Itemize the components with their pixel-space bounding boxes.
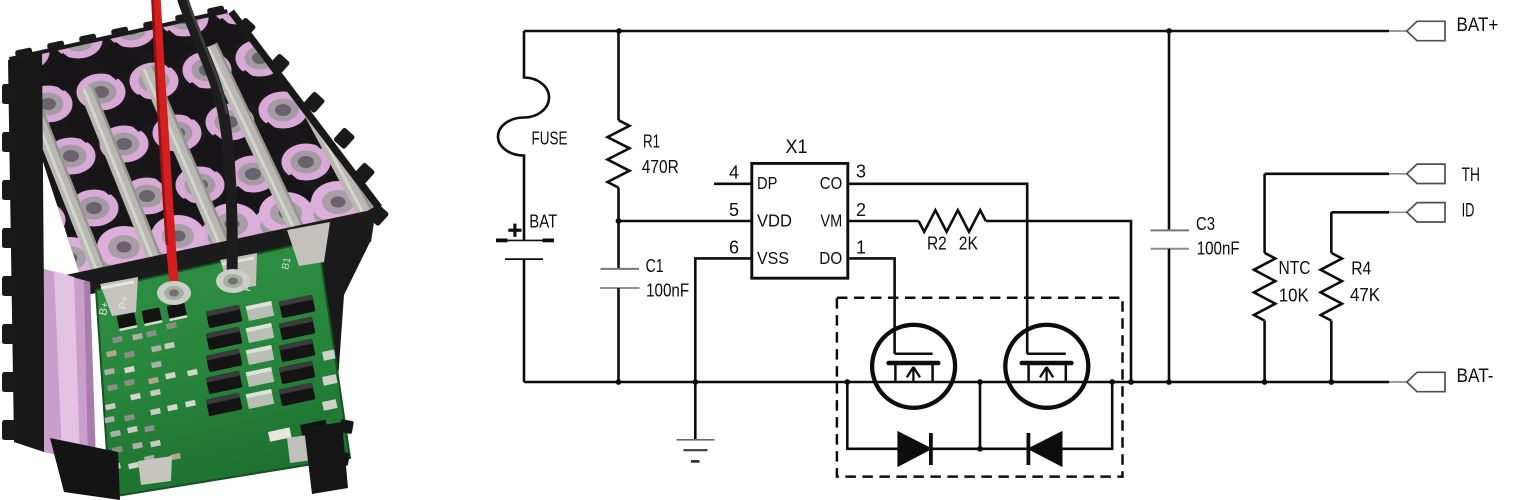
junction node (1328, 379, 1334, 385)
wire bottom BAT- rail (524, 381, 1389, 384)
resistor R2 2K (919, 210, 986, 232)
capacitor C3 100nF (1168, 31, 1171, 231)
transistor Q1 gate (895, 353, 933, 356)
resistor R1 470R (617, 31, 620, 120)
svg-text:NTC: NTC (1279, 258, 1311, 278)
cell tops (0, 0, 27, 19)
svg-text:R1: R1 (643, 130, 660, 151)
junction node (844, 379, 850, 385)
terminal BAT- (1407, 372, 1445, 391)
wire battery to bottom rail (523, 259, 526, 382)
black wire (183, 0, 232, 282)
left holder strip (8, 52, 44, 452)
svg-text:DP: DP (757, 173, 777, 193)
transistor Q2 drain leg (1065, 363, 1068, 382)
capacitor C1 100nF (617, 221, 620, 269)
FET components (206, 305, 243, 329)
svg-text:5: 5 (729, 200, 739, 220)
resistor R4 47K (1330, 212, 1333, 253)
transistor Q2 channel bar (1022, 361, 1072, 366)
wire top BAT+ rail (524, 30, 1389, 33)
junction node (1166, 379, 1172, 385)
terminal BAT+ (1407, 21, 1445, 40)
svg-text:C3: C3 (1196, 214, 1215, 234)
wire VM to rail (986, 221, 1131, 382)
svg-text:VDD: VDD (757, 210, 792, 230)
wire pin2 VM (848, 220, 919, 223)
transistor Q2 gate (1027, 353, 1066, 356)
svg-text:X1: X1 (786, 136, 808, 158)
left side cell (34, 266, 96, 464)
wire left vertical + fuse F1 (498, 31, 549, 240)
solder pads (157, 281, 191, 305)
junction node (616, 28, 622, 34)
svg-text:R2: R2 (927, 234, 947, 254)
wire pin3 CO to Q2 gate (848, 184, 1027, 354)
IC X1 box (752, 163, 848, 278)
wire pin6 VSS to ground (695, 258, 752, 382)
svg-text:3: 3 (856, 162, 866, 182)
right edge border (228, 14, 376, 210)
front row cells (43, 237, 97, 279)
svg-text:10K: 10K (1279, 286, 1309, 306)
red wire (156, 0, 174, 292)
svg-text:DO: DO (819, 248, 842, 268)
transistor Q1 channel bar (889, 361, 939, 366)
dashed MOSFET module box (837, 298, 1123, 477)
svg-text:TH: TH (1462, 165, 1480, 186)
terminal ID (1407, 203, 1445, 222)
svg-text:BAT-: BAT- (1457, 366, 1494, 387)
wire TH (1265, 173, 1389, 176)
holder tabs right edge (234, 17, 257, 40)
junction node (1262, 379, 1268, 385)
svg-text:BAT+: BAT+ (1457, 15, 1499, 36)
transistor Q1 drain leg (931, 363, 934, 382)
transistor Q1 body circle (872, 325, 955, 408)
bottom feet (50, 438, 120, 500)
junction node (616, 218, 622, 224)
transistor Q1 body arrow (912, 369, 914, 383)
svg-text:CO: CO (820, 173, 842, 193)
wire pin4 DP stub (714, 183, 752, 186)
SMD ICs (117, 312, 138, 331)
junction node (1166, 28, 1172, 34)
transistor Q2 source leg (1027, 363, 1030, 382)
junction node (1109, 379, 1115, 385)
ground symbol (694, 382, 697, 440)
svg-text:BAT: BAT (529, 212, 557, 232)
svg-text:6: 6 (729, 238, 739, 258)
wire diode centre riser (979, 382, 982, 449)
svg-text:100nF: 100nF (646, 281, 689, 301)
nickel wrap tabs over PCB edge (100, 277, 138, 316)
BMS PCB (96, 240, 350, 497)
svg-text:47K: 47K (1350, 285, 1380, 305)
junction node (692, 379, 698, 385)
junction node (616, 379, 622, 385)
svg-text:2K: 2K (959, 234, 978, 254)
bottom nickel tabs (138, 456, 172, 485)
diode D2 body diode (980, 447, 1028, 450)
front edge band (42, 209, 376, 304)
nickel strips top (26, 101, 111, 286)
svg-text:C1: C1 (646, 256, 664, 276)
junction node (977, 379, 983, 385)
diode D1 body diode (847, 382, 898, 449)
svg-text:1: 1 (856, 238, 866, 258)
top edge border (10, 14, 228, 62)
svg-text:4: 4 (729, 162, 739, 182)
junction node (1128, 379, 1134, 385)
right corner holder (312, 206, 376, 462)
svg-text:FUSE: FUSE (532, 128, 568, 149)
transistor Q1 source leg (894, 363, 897, 382)
thermistor NTC 10K (1263, 174, 1266, 253)
wire pin5 VDD (619, 220, 752, 223)
svg-text:2: 2 (856, 200, 866, 220)
svg-text:R4: R4 (1351, 258, 1371, 278)
svg-text:ID: ID (1462, 200, 1475, 221)
wire ID (1331, 211, 1389, 214)
junction node (977, 446, 983, 452)
transistor Q2 body arrow (1045, 369, 1047, 383)
svg-text:VSS: VSS (757, 248, 789, 268)
transistor Q2 body circle (1005, 325, 1088, 408)
terminal TH (1407, 164, 1445, 183)
svg-text:VM: VM (820, 210, 842, 230)
svg-text:100nF: 100nF (1197, 238, 1240, 258)
battery pack photo (0, 0, 444, 500)
battery BAT (496, 239, 554, 241)
holder lattice (0, 12, 11, 50)
wire pin1 DO to Q1 gate (848, 258, 895, 353)
small SMD parts (112, 336, 123, 343)
svg-text:470R: 470R (642, 156, 679, 177)
holder tabs top edge (15, 47, 34, 61)
